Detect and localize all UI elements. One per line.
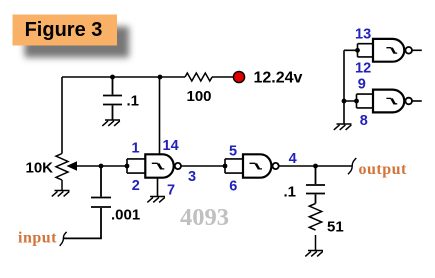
ground (pin 7) [147,197,165,203]
svg-text:9: 9 [358,77,366,93]
svg-text:5: 5 [229,144,237,160]
ground (R3) [305,251,323,257]
svg-text:10K: 10K [26,159,54,176]
Figure 3 title box [13,15,118,46]
svg-text:13: 13 [355,27,371,43]
svg-text:8: 8 [360,113,368,129]
node: gate C input [355,48,360,53]
potentiometer R2 10K [26,154,78,191]
svg-text:12.24v: 12.24v [254,69,303,86]
ground (spare gates) [334,124,352,130]
svg-text:51: 51 [327,219,344,236]
input break mark [60,232,67,246]
wire: +V top rail [62,76,234,78]
NAND gate U1A (pins 1,2,3) [127,154,181,177]
svg-text:2: 2 [132,178,140,194]
NAND gate U1C (pins 13,12) [358,39,422,62]
resistor R1 100 [185,73,212,105]
wire: pin 14 to rail [159,77,161,154]
svg-text:1: 1 [132,141,140,157]
svg-text:100: 100 [187,88,212,105]
ground (pot) [52,191,70,197]
resistor R3 51 [309,204,343,251]
svg-text:4: 4 [289,151,297,167]
svg-text:.001: .001 [111,207,140,224]
node: output junction [313,164,318,169]
svg-text:12: 12 [355,60,371,76]
wire: wiper to gate input [77,165,127,167]
node: gate D tee [342,99,347,104]
capacitor C1 .1 (bypass) [103,77,139,120]
svg-text:7: 7 [167,183,175,199]
wire: pin 7 to ground [157,178,159,197]
node: rail / C1 junction [110,75,115,80]
svg-text:3: 3 [188,169,196,185]
wire: gate1 output to gate2 [181,165,225,167]
capacitor C2 .001 [64,166,140,238]
supply node 12.24v (red dot) [233,69,302,86]
node: wiper / C2 junction [99,164,104,169]
node: gate D input [354,99,359,104]
ground (C1) [102,120,120,126]
output break mark [348,158,356,174]
node: rail / pin14 junction [158,75,163,80]
svg-text:Figure 3: Figure 3 [25,19,103,41]
svg-text:input: input [18,229,57,246]
svg-text:6: 6 [229,178,237,194]
svg-text:14: 14 [163,138,179,154]
node: gate2 input junction [223,164,228,169]
wire: gate2 output to output node [279,165,352,167]
svg-text:4093: 4093 [180,204,229,231]
node: gate1 input junction [125,164,130,169]
NAND gate U1B (pins 5,6,4) [225,154,279,177]
capacitor C3 .1 (output) [284,166,326,204]
svg-text:.1: .1 [127,93,140,110]
NAND gate U1D (pins 9,8) [357,90,422,113]
wire: spare-gates left vertical [344,50,358,123]
svg-text:.1: .1 [284,184,297,201]
wire: left vertical from rail to pot [61,77,63,154]
svg-text:output: output [359,161,408,178]
